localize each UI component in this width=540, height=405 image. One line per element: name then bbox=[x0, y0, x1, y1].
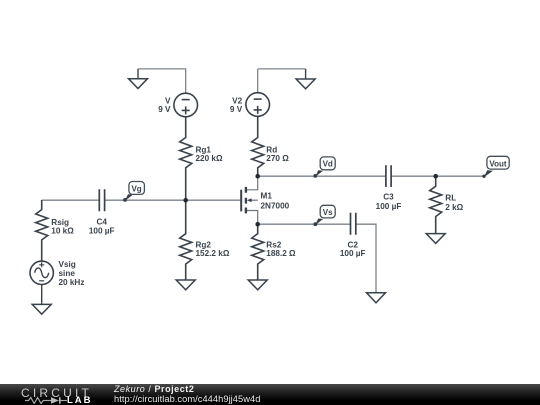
svg-text:RL: RL bbox=[445, 193, 456, 202]
Vsig sine bbox=[35, 268, 49, 278]
voltage source Vsig circle bbox=[30, 261, 53, 284]
svg-text:Vd: Vd bbox=[323, 160, 333, 169]
ground under Rg2 bbox=[176, 280, 195, 290]
voltage source V2 circle bbox=[246, 93, 270, 117]
resistor Rsig bbox=[36, 200, 48, 261]
mosfet M1 channel segments bbox=[245, 187, 247, 214]
wire V2 top stub bbox=[257, 69, 259, 93]
svg-text:9 V: 9 V bbox=[230, 105, 243, 114]
svg-text:100 µF: 100 µF bbox=[376, 202, 402, 211]
junction dot source node bbox=[255, 222, 260, 227]
svg-text:2 kΩ: 2 kΩ bbox=[445, 203, 463, 212]
junction dot drain node bbox=[255, 174, 260, 179]
Vsig minus bbox=[39, 280, 44, 282]
mosfet M1 source lead bbox=[247, 211, 258, 225]
V1 minus bbox=[182, 99, 190, 101]
bottom bar bbox=[0, 384, 540, 405]
logo squiggle resistor-diode bbox=[24, 396, 94, 404]
svg-text:Vs: Vs bbox=[323, 208, 333, 217]
wire top-left horizontal to V bbox=[138, 69, 186, 93]
ground under RL bbox=[426, 234, 445, 244]
svg-text:20 kHz: 20 kHz bbox=[59, 278, 85, 287]
svg-text:270 Ω: 270 Ω bbox=[266, 154, 289, 163]
Vsig to ground wire bbox=[41, 285, 43, 305]
svg-text:sine: sine bbox=[59, 269, 76, 278]
svg-text:Vg: Vg bbox=[131, 184, 141, 193]
ground top-right bbox=[296, 79, 315, 89]
V2 plus bbox=[254, 106, 262, 114]
resistor Rg2 bbox=[180, 200, 192, 280]
url line bbox=[114, 394, 260, 404]
capacitor C4 bbox=[99, 189, 104, 211]
mosfet M1 body lead with arrow bbox=[251, 199, 258, 201]
title line bbox=[114, 384, 194, 394]
resistor Rs2 bbox=[252, 224, 264, 280]
ground top-left bbox=[129, 79, 148, 89]
resistor Rg1 bbox=[180, 117, 192, 200]
svg-text:Rg1: Rg1 bbox=[196, 145, 212, 154]
svg-text:Vout: Vout bbox=[489, 159, 507, 168]
mosfet M1 drain lead bbox=[247, 176, 258, 190]
junction dot RL node bbox=[433, 174, 438, 179]
V2 minus bbox=[254, 98, 262, 100]
svg-text:152.2 kΩ: 152.2 kΩ bbox=[196, 249, 230, 258]
svg-text:9 V: 9 V bbox=[158, 105, 171, 114]
gate wire from Rsig through C4 to M1 bbox=[42, 199, 242, 201]
svg-text:C4: C4 bbox=[96, 217, 107, 226]
svg-text:10 kΩ: 10 kΩ bbox=[51, 227, 74, 236]
ground under Rs2 bbox=[248, 280, 267, 290]
node flag Vs bbox=[315, 219, 323, 226]
capacitor C3 bbox=[386, 165, 391, 187]
svg-text:220 kΩ: 220 kΩ bbox=[196, 154, 223, 163]
svg-text:Rd: Rd bbox=[266, 145, 277, 154]
capacitor C2 bbox=[351, 213, 356, 235]
svg-text:Rs2: Rs2 bbox=[266, 240, 281, 249]
mosfet M1 gate bar bbox=[240, 190, 242, 212]
wire top-right horizontal from V2 bbox=[258, 68, 306, 70]
svg-text:100 µF: 100 µF bbox=[89, 227, 115, 236]
svg-text:V2: V2 bbox=[232, 96, 242, 105]
svg-text:100 µF: 100 µF bbox=[340, 249, 366, 258]
ground under Vsig bbox=[32, 304, 51, 314]
voltage source V1 circle bbox=[174, 93, 198, 117]
svg-text:Vsig: Vsig bbox=[59, 260, 76, 269]
node flag Vg bbox=[125, 194, 133, 201]
svg-text:M1: M1 bbox=[261, 191, 273, 200]
svg-text:2N7000: 2N7000 bbox=[261, 202, 290, 211]
logo LAB bbox=[67, 395, 93, 405]
ground stub top-left bbox=[137, 69, 139, 79]
Vsig plus bbox=[39, 262, 44, 267]
svg-text:C3: C3 bbox=[383, 192, 394, 201]
node flag Vd bbox=[315, 170, 323, 177]
V1 plus bbox=[182, 106, 190, 114]
resistor RL bbox=[430, 176, 442, 234]
resistor Rd bbox=[252, 116, 264, 176]
svg-text:188.2 Ω: 188.2 Ω bbox=[266, 249, 296, 258]
junction dot gate node bbox=[183, 198, 188, 203]
svg-text:V: V bbox=[165, 96, 171, 105]
Vs wire from source through C2 bbox=[258, 224, 376, 293]
ground under C2 bbox=[367, 293, 386, 303]
logo CIRCUIT bbox=[21, 386, 92, 400]
Vd wire from drain through C3 to Vout bbox=[258, 175, 484, 177]
node flag Vout bbox=[484, 170, 493, 177]
svg-text:Rsig: Rsig bbox=[51, 218, 69, 227]
svg-text:Rg2: Rg2 bbox=[196, 240, 212, 249]
